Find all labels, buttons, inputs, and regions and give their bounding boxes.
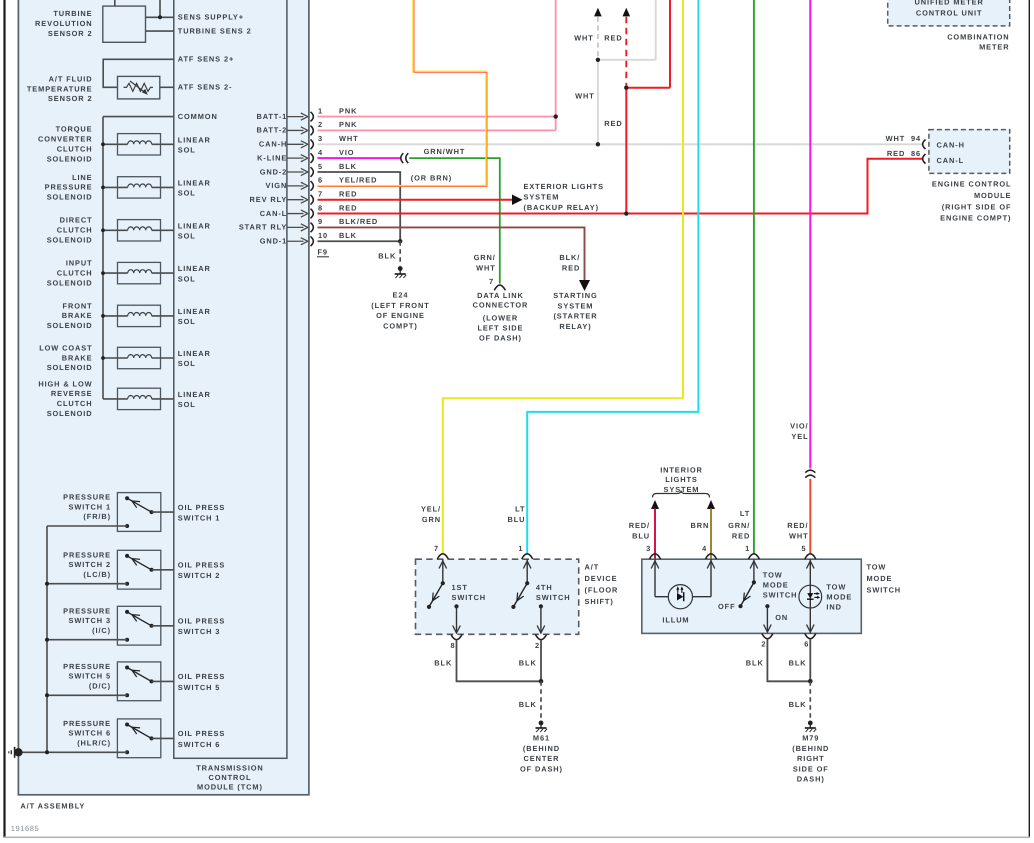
label BLK pin2: [519, 658, 537, 667]
svg-text:(FLOOR: (FLOOR: [585, 585, 619, 594]
svg-text:WHT: WHT: [789, 531, 809, 540]
label TOW MODE SWITCH inner: [763, 570, 798, 599]
svg-text:SYSTEM: SYSTEM: [524, 192, 560, 201]
svg-text:(RIGHT SIDE OF: (RIGHT SIDE OF: [942, 202, 1012, 211]
svg-text:BATT-1: BATT-1: [256, 112, 287, 121]
wire BLK from pin8: [457, 640, 542, 681]
svg-text:BLK: BLK: [519, 658, 537, 667]
svg-text:SOLENOID: SOLENOID: [47, 154, 93, 163]
svg-text:VIGN: VIGN: [266, 181, 288, 190]
label BRN: [690, 521, 709, 530]
svg-text:STARTING: STARTING: [553, 291, 597, 300]
wire BLK dashed to M61: [540, 681, 542, 719]
wire PNK pin2 BATT-2: [318, 0, 558, 130]
svg-text:SOLENOID: SOLENOID: [47, 363, 93, 372]
svg-text:COMBINATION: COMBINATION: [947, 32, 1009, 41]
pin label OIL PRESS SWITCH: [178, 672, 225, 692]
svg-text:F9: F9: [318, 247, 328, 256]
exit pin 2 A/T device: [535, 635, 547, 651]
label ON: [775, 613, 788, 622]
svg-text:UNIFIED METER: UNIFIED METER: [915, 0, 984, 7]
svg-text:ENGINE CONTROL: ENGINE CONTROL: [932, 179, 1012, 188]
svg-text:SOLENOID: SOLENOID: [47, 321, 93, 330]
svg-text:(LC/B): (LC/B): [83, 570, 111, 579]
svg-text:EXTERIOR LIGHTS: EXTERIOR LIGHTS: [524, 182, 604, 191]
label pressure switch 1: [63, 493, 111, 521]
svg-text:(STARTER: (STARTER: [553, 312, 597, 321]
svg-text:5: 5: [318, 162, 323, 171]
svg-text:(HLR/C): (HLR/C): [77, 738, 111, 747]
wire BLK tow pin2: [767, 639, 810, 681]
svg-text:SENS SUPPLY+: SENS SUPPLY+: [178, 13, 244, 22]
svg-text:SOL: SOL: [178, 400, 196, 409]
A/T device box: [416, 559, 579, 634]
label LT GRN/RED: [728, 509, 750, 541]
pin label LINEAR SOL 3: [178, 221, 211, 240]
svg-text:GRN: GRN: [422, 515, 441, 524]
svg-text:HIGH & LOW: HIGH & LOW: [38, 379, 92, 388]
svg-text:WHT: WHT: [476, 263, 496, 272]
solenoid input clutch: [101, 262, 174, 283]
pin label LINEAR SOL 6: [178, 349, 211, 368]
svg-text:INTERIOR: INTERIOR: [660, 466, 703, 475]
label 191685: [11, 824, 40, 833]
svg-text:8: 8: [318, 203, 323, 212]
svg-text:CONVERTER: CONVERTER: [38, 135, 93, 144]
svg-text:SWITCH: SWITCH: [536, 593, 571, 602]
svg-text:SWITCH: SWITCH: [763, 590, 798, 599]
svg-text:CONNECTOR: CONNECTOR: [473, 301, 529, 310]
wire WHT riser with arrow: [594, 0, 656, 147]
svg-text:SWITCH 2: SWITCH 2: [178, 571, 221, 580]
svg-text:SOLENOID: SOLENOID: [47, 278, 93, 287]
svg-text:(BEHIND: (BEHIND: [792, 744, 829, 753]
svg-text:RED: RED: [604, 34, 622, 43]
label BLK M79: [789, 700, 807, 709]
svg-text:PNK: PNK: [339, 106, 357, 115]
svg-text:RED: RED: [339, 203, 357, 212]
label 1ST SWITCH: [452, 583, 487, 602]
wire BLK tow pin6: [808, 639, 813, 684]
solenoid front brake: [101, 305, 174, 326]
svg-text:2: 2: [535, 641, 540, 650]
turbine revolution sensor 2: [103, 0, 146, 42]
svg-text:SOLENOID: SOLENOID: [47, 409, 93, 418]
label UNIFIED METER CONTROL UNIT: [915, 0, 984, 18]
ECM pin CAN-H: [923, 140, 965, 150]
label TCM: [196, 764, 263, 792]
wire GRN/WHT to data link connector: [409, 158, 500, 283]
svg-text:LINEAR: LINEAR: [178, 178, 211, 187]
svg-text:WHT: WHT: [574, 34, 594, 43]
svg-text:RED: RED: [339, 189, 357, 198]
svg-text:PRESSURE: PRESSURE: [63, 550, 111, 559]
ECM pin CAN-L: [923, 154, 964, 165]
label GRN/WHT dlc: [474, 253, 496, 272]
pin 1 tow mode switch: [745, 544, 759, 559]
svg-text:3: 3: [318, 134, 323, 143]
wire LT BLU to 4th switch: [527, 0, 698, 554]
svg-text:ATF SENS 2-: ATF SENS 2-: [178, 83, 233, 92]
wire VIO pin4 K-LINE: [318, 157, 401, 159]
svg-text:BRAKE: BRAKE: [62, 353, 93, 362]
wire RED pin8 CAN-L to ECM: [318, 159, 923, 214]
wire WHT pin3 CAN-H to ECM: [318, 143, 923, 145]
pin label SENS SUPPLY+: [178, 13, 244, 22]
svg-text:TORQUE: TORQUE: [56, 125, 93, 134]
svg-text:CONTROL: CONTROL: [209, 773, 252, 782]
svg-text:SWITCH 5: SWITCH 5: [178, 683, 221, 692]
svg-text:ON: ON: [775, 613, 788, 622]
svg-text:PRESSURE: PRESSURE: [63, 719, 111, 728]
svg-text:94: 94: [911, 134, 921, 143]
svg-text:ATF SENS 2+: ATF SENS 2+: [178, 55, 234, 64]
svg-text:6: 6: [318, 176, 323, 185]
svg-text:RIGHT: RIGHT: [797, 754, 825, 763]
svg-text:GND-2: GND-2: [260, 167, 288, 176]
label OFF: [718, 602, 735, 611]
pin label LINEAR SOL 1: [178, 135, 211, 154]
wire LT GRN/RED to tow mode switch: [753, 0, 755, 554]
svg-text:SWITCH 6: SWITCH 6: [68, 729, 111, 738]
svg-text:CAN-H: CAN-H: [937, 141, 965, 150]
svg-text:CAN-H: CAN-H: [259, 140, 287, 149]
pin label OIL PRESS SWITCH: [178, 729, 225, 749]
svg-text:TURBINE SENS 2: TURBINE SENS 2: [178, 26, 252, 35]
wire YEL/GRN to 1st switch: [443, 0, 683, 554]
label RED top: [604, 34, 622, 43]
svg-text:LINEAR: LINEAR: [178, 307, 211, 316]
svg-text:DEVICE: DEVICE: [585, 574, 618, 583]
svg-text:E24: E24: [393, 290, 409, 299]
label ILLUM: [662, 615, 689, 624]
svg-text:7: 7: [489, 277, 494, 286]
pressure switch 2: [45, 550, 174, 589]
svg-text:LINEAR: LINEAR: [178, 390, 211, 399]
svg-text:LT: LT: [740, 509, 750, 518]
label E24 location: [371, 290, 429, 330]
TCM pin 9 START RLY: [239, 217, 378, 232]
svg-text:4TH: 4TH: [536, 583, 553, 592]
svg-text:M61: M61: [533, 734, 550, 743]
4th switch: [511, 559, 544, 633]
svg-text:SENSOR 2: SENSOR 2: [48, 29, 93, 38]
svg-text:WHT: WHT: [339, 134, 359, 143]
tow mode switch box: [642, 559, 862, 633]
svg-text:BLK/RED: BLK/RED: [339, 217, 378, 226]
wire BLK/RED pin9 START RLY: [318, 227, 591, 291]
svg-text:(BEHIND: (BEHIND: [523, 744, 560, 753]
wire PNK pin1 BATT-1: [318, 116, 556, 118]
TCM pin 1 BATT-1: [256, 106, 357, 121]
solenoid torque converter clutch: [101, 134, 174, 155]
wire RED/WHT to tow mode switch: [809, 479, 811, 554]
wire COMMON bus: [103, 117, 174, 399]
svg-text:REVOLUTION: REVOLUTION: [35, 19, 92, 28]
solenoid line pressure: [101, 177, 174, 198]
svg-text:TOW: TOW: [763, 570, 783, 579]
label solenoid front brake: [47, 301, 93, 330]
label RED/WHT: [787, 521, 808, 541]
inline connector K-LINE: [401, 153, 409, 163]
svg-text:MODULE: MODULE: [974, 191, 1011, 200]
svg-text:WHT: WHT: [886, 134, 906, 143]
svg-text:SWITCH: SWITCH: [867, 585, 902, 594]
svg-text:LINEAR: LINEAR: [178, 264, 211, 273]
svg-text:BATT-2: BATT-2: [256, 126, 287, 135]
svg-text:DIRECT: DIRECT: [60, 216, 93, 225]
pin 7 A/T device: [434, 544, 448, 559]
label WHT top: [574, 34, 594, 43]
svg-text:(BACKUP RELAY): (BACKUP RELAY): [524, 203, 599, 212]
label RED mid: [604, 119, 622, 128]
TCM pin 4 K-LINE: [257, 148, 354, 163]
svg-text:2: 2: [318, 120, 323, 129]
svg-text:191685: 191685: [11, 824, 40, 833]
arrow RED/BLU: [651, 500, 659, 559]
wire BLK from pin2: [539, 640, 544, 684]
ground M61: [536, 721, 548, 732]
svg-text:1: 1: [318, 106, 323, 115]
svg-text:(OR BRN): (OR BRN): [411, 173, 452, 182]
TCM box: [174, 0, 287, 758]
TCM pin 6 VIGN: [266, 176, 378, 191]
pin label ATF SENS 2-: [178, 83, 233, 92]
pin label LINEAR SOL 4: [178, 264, 211, 283]
label solenoid direct clutch: [47, 216, 93, 245]
svg-text:SWITCH 5: SWITCH 5: [68, 672, 111, 681]
svg-text:CONTROL UNIT: CONTROL UNIT: [916, 9, 983, 18]
svg-text:YEL/: YEL/: [421, 504, 441, 513]
label TOW MODE SWITCH right: [867, 562, 902, 594]
svg-text:SENSOR 2: SENSOR 2: [48, 94, 93, 103]
pin label ATF SENS 2+: [178, 55, 234, 64]
label LT BLU: [508, 504, 526, 524]
label RED 86: [887, 149, 921, 158]
svg-text:LT: LT: [515, 504, 525, 513]
label solenoid torque converter clutch: [38, 125, 93, 164]
svg-text:K-LINE: K-LINE: [257, 153, 287, 162]
svg-text:M79: M79: [802, 734, 819, 743]
svg-text:LIGHTS: LIGHTS: [665, 475, 698, 484]
svg-text:BLU: BLU: [632, 531, 650, 540]
TCM pin 3 CAN-H: [259, 134, 359, 149]
svg-text:A/T FLUID: A/T FLUID: [49, 74, 93, 83]
TCM pin 7 REV RLY: [250, 189, 358, 204]
svg-text:CLUTCH: CLUTCH: [57, 145, 93, 154]
label (OR BRN): [411, 173, 452, 182]
label solenoid high & low reverse clutch: [38, 379, 92, 418]
svg-text:CAN-L: CAN-L: [937, 156, 965, 165]
svg-text:OIL PRESS: OIL PRESS: [178, 503, 225, 512]
svg-text:TURBINE: TURBINE: [53, 9, 92, 18]
svg-text:SOL: SOL: [178, 274, 196, 283]
svg-text:RED: RED: [562, 263, 580, 272]
svg-text:4: 4: [702, 544, 707, 553]
wire BLK dashed to M79: [809, 681, 811, 719]
label A/T DEVICE (FLOOR SHIFT): [585, 562, 619, 606]
svg-text:VIO/: VIO/: [790, 421, 808, 430]
svg-text:BLU: BLU: [508, 515, 526, 524]
svg-text:PRESSURE: PRESSURE: [63, 493, 111, 502]
exit pin 8 A/T device: [450, 635, 462, 651]
svg-text:ENGINE COMPT): ENGINE COMPT): [940, 214, 1011, 223]
svg-text:TRANSMISSION: TRANSMISSION: [196, 764, 263, 773]
page border right: [1028, 0, 1030, 838]
chassis ground at A/T case: [9, 747, 49, 758]
label BLK pin8: [434, 658, 452, 667]
svg-text:SWITCH 2: SWITCH 2: [68, 560, 111, 569]
solenoid high & low reverse clutch: [103, 388, 174, 409]
svg-text:OIL PRESS: OIL PRESS: [178, 672, 225, 681]
svg-text:COMPT): COMPT): [383, 321, 418, 330]
svg-text:MODE: MODE: [867, 574, 893, 583]
svg-text:CENTER: CENTER: [524, 754, 560, 763]
svg-text:OFF: OFF: [718, 602, 735, 611]
svg-text:TOW: TOW: [826, 582, 846, 591]
pin label TURBINE SENS 2: [178, 26, 252, 35]
svg-text:OF DASH): OF DASH): [520, 764, 563, 773]
pin label LINEAR SOL 7: [178, 390, 211, 409]
pressure switch 5: [45, 662, 174, 701]
svg-text:86: 86: [911, 149, 921, 158]
svg-text:BLK: BLK: [339, 231, 357, 240]
pin label COMMON: [178, 112, 218, 121]
svg-text:5: 5: [801, 544, 806, 553]
svg-text:BRN: BRN: [690, 521, 709, 530]
svg-text:CLUTCH: CLUTCH: [57, 268, 93, 277]
svg-text:A/T: A/T: [585, 562, 600, 571]
svg-text:SYSTEM: SYSTEM: [558, 301, 594, 310]
exit pin 2 tow: [761, 634, 773, 649]
label BLK M61: [519, 700, 537, 709]
label YEL/GRN: [421, 504, 441, 524]
svg-text:YEL/RED: YEL/RED: [339, 176, 377, 185]
svg-text:(LEFT FRONT: (LEFT FRONT: [371, 301, 429, 310]
svg-text:WHT: WHT: [575, 91, 595, 100]
svg-text:SWITCH 6: SWITCH 6: [178, 740, 221, 749]
svg-text:SWITCH: SWITCH: [452, 593, 487, 602]
pin 7 data link connector: [489, 277, 505, 291]
svg-text:7: 7: [434, 544, 439, 553]
label pressure switch 2: [63, 550, 111, 578]
svg-text:CLUTCH: CLUTCH: [57, 226, 93, 235]
label 4TH SWITCH: [536, 583, 571, 602]
TCM pin 5 GND-2: [260, 162, 357, 177]
svg-text:LEFT SIDE: LEFT SIDE: [478, 323, 524, 332]
TCM pin 2 BATT-2: [256, 120, 357, 135]
svg-text:SWITCH 1: SWITCH 1: [68, 502, 111, 511]
label COMBINATION METER: [947, 32, 1009, 51]
solenoid low coast brake: [101, 347, 174, 368]
wire BLK pin10 GND-1: [318, 239, 403, 243]
svg-text:PRESSURE: PRESSURE: [63, 662, 111, 671]
svg-text:3: 3: [646, 544, 651, 553]
svg-text:OF ENGINE: OF ENGINE: [376, 311, 425, 320]
wire ATF SENS 2+: [103, 59, 174, 87]
wire BLK pin5 GND-2: [318, 172, 401, 241]
svg-text:(D/C): (D/C): [89, 681, 111, 690]
pin label LINEAR SOL 2: [178, 178, 211, 197]
tow mode indicator LED: [799, 559, 822, 633]
svg-text:10: 10: [318, 231, 328, 240]
TCM pin 10 GND-1: [260, 231, 357, 246]
svg-text:METER: METER: [979, 43, 1009, 52]
wire RED riser with arrow: [623, 0, 671, 216]
svg-text:BLK: BLK: [339, 162, 357, 171]
wire SENS SUPPLY+: [146, 0, 174, 19]
label M61 location: [520, 734, 563, 774]
svg-text:OF DASH): OF DASH): [479, 334, 522, 343]
svg-text:ILLUM: ILLUM: [662, 615, 689, 624]
pin label LINEAR SOL 5: [178, 307, 211, 326]
label solenoid low coast brake: [39, 343, 92, 372]
svg-text:REV RLY: REV RLY: [250, 195, 288, 204]
svg-text:SOL: SOL: [178, 231, 196, 240]
svg-text:MODE: MODE: [826, 592, 852, 601]
svg-text:(FR/B): (FR/B): [83, 512, 111, 521]
svg-text:2: 2: [761, 639, 766, 648]
svg-text:1: 1: [745, 544, 750, 553]
svg-text:SWITCH 3: SWITCH 3: [178, 627, 221, 636]
label ENGINE CONTROL MODULE: [932, 179, 1012, 222]
svg-text:8: 8: [450, 641, 455, 650]
label solenoid line pressure: [45, 173, 93, 202]
svg-text:7: 7: [318, 189, 323, 198]
label TOW MODE IND: [826, 582, 852, 611]
label WHT 94: [886, 134, 921, 143]
wire YEL/RED pin6 VIGN: [318, 0, 488, 187]
label M79 location: [792, 734, 829, 784]
svg-text:RED/: RED/: [787, 521, 808, 530]
engine control module box: [929, 130, 1010, 174]
svg-text:MODE: MODE: [763, 580, 789, 589]
pressure switch 3: [45, 606, 174, 645]
svg-text:DATA LINK: DATA LINK: [477, 291, 524, 300]
label GRN/WHT: [424, 147, 466, 156]
A/T ASSEMBLY box: [18, 0, 309, 795]
svg-text:LINEAR: LINEAR: [178, 349, 211, 358]
svg-text:COMMON: COMMON: [178, 112, 218, 121]
svg-text:LINEAR: LINEAR: [178, 221, 211, 230]
label RED/BLU: [629, 521, 650, 541]
unified meter control unit box: [888, 0, 1010, 26]
label VIO/YEL: [790, 421, 808, 441]
svg-text:RELAY): RELAY): [559, 322, 591, 331]
svg-text:DASH): DASH): [797, 775, 825, 784]
pressure switch 1: [47, 493, 174, 532]
wire RED pin7 REV RLY: [318, 194, 523, 205]
svg-text:GRN/: GRN/: [728, 521, 750, 530]
svg-text:A/T ASSEMBLY: A/T ASSEMBLY: [20, 801, 85, 810]
svg-text:6: 6: [804, 639, 809, 648]
svg-text:BRAKE: BRAKE: [62, 311, 93, 320]
label STARTING SYSTEM: [553, 291, 597, 331]
svg-text:BLK: BLK: [789, 658, 807, 667]
pin 1 A/T device: [518, 544, 532, 559]
svg-text:CAN-L: CAN-L: [260, 209, 288, 218]
svg-text:LINEAR: LINEAR: [178, 135, 211, 144]
svg-text:FRONT: FRONT: [63, 301, 93, 310]
svg-text:OIL PRESS: OIL PRESS: [178, 617, 225, 626]
pressure switch ground bus: [46, 526, 48, 752]
wire VIO/YEL riser: [809, 0, 811, 469]
svg-text:SOL: SOL: [178, 359, 196, 368]
tow mode switch contact: [738, 559, 771, 632]
svg-text:SHIFT): SHIFT): [585, 597, 614, 606]
label turbine sensor: [35, 9, 92, 38]
solenoid direct clutch: [101, 220, 174, 241]
